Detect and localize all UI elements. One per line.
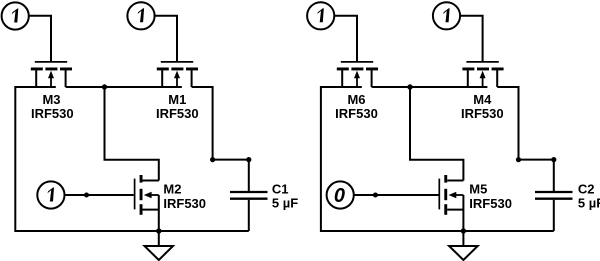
transistor M1 [157,62,198,87]
wire left rail right circuit [320,86,322,232]
junction dot ground left [156,228,161,233]
wire node A down to M2 drain [105,87,159,181]
label M4 IRF530 [461,92,504,121]
wire top rail right circuit seg1 [321,86,362,88]
wire bottom rail left circuit [15,230,249,232]
wire top rail right segment [192,86,213,88]
wire M1 drain drop [212,86,214,160]
wire top rail middle segment [66,86,182,88]
svg-text:C1: C1 [272,182,289,197]
node dot C1 top [246,157,251,162]
svg-text:M5: M5 [469,182,487,197]
source V5 "0" circle (M5 gate) [327,181,354,208]
label M2 IRF530 [163,182,206,211]
wire V5 to M5 gate [354,194,439,196]
capacitor C1 [230,160,268,231]
node A junction dot [102,84,107,89]
source V3 "1" top-left circle [2,2,29,29]
svg-text:0: 0 [334,185,345,207]
transistor M5 [439,175,463,231]
source V1 "1" circle (M1 gate) [127,2,154,29]
transistor M2 [135,175,159,231]
transistor M6 [337,62,378,87]
junction dot gate wire right [373,193,378,198]
ground right [449,231,478,260]
wire M4 drain drop [518,86,520,160]
svg-text:IRF530: IRF530 [469,196,512,211]
wire bottom rail right circuit [321,230,554,232]
wire top rail right circuit seg2 [372,86,488,88]
junction dot gate wire [84,193,89,198]
wire node B down to M5 drain [410,87,463,181]
svg-text:IRF530: IRF530 [335,106,378,121]
wire to C2 [519,159,554,161]
svg-text:IRF530: IRF530 [156,106,199,121]
label M5 IRF530 [469,182,512,211]
svg-text:M2: M2 [163,182,181,197]
wire V1 to M1 gate [155,16,177,62]
capacitor C2 [535,160,573,231]
node B junction dot [407,84,412,89]
svg-text:IRF530: IRF530 [461,106,504,121]
svg-text:5 µF: 5 µF [578,195,600,210]
node dot output right [516,157,521,162]
label M6 IRF530 [335,92,378,121]
wire V4 to M4 gate [460,16,483,62]
wire V6 to M6 gate [334,16,357,62]
source V2 "1" circle (M2 gate) [37,181,64,208]
node dot output left [210,157,215,162]
ground left [145,231,174,260]
wire left rail [14,86,16,232]
label C1 5uF [272,182,298,211]
label M1 IRF530 [156,92,199,121]
source V4 "1" top circle (M4 gate) [433,2,460,29]
transistor M4 [462,62,503,87]
wire top rail left segment [15,86,56,88]
wire top rail right circuit seg3 [497,86,518,88]
label M3 IRF530 [31,92,74,121]
source V6 "1" top circle (M6 gate) [307,2,334,29]
wire V2 to M2 gate [65,194,134,196]
label C2 5uF [578,182,600,211]
svg-text:5 µF: 5 µF [272,195,298,210]
wire V3 to M3 gate [29,16,51,62]
transistor M3 [31,62,72,87]
svg-text:IRF530: IRF530 [31,106,74,121]
svg-text:IRF530: IRF530 [163,196,206,211]
node dot C2 top [551,157,556,162]
svg-text:C2: C2 [578,182,595,197]
wire to C1 [213,159,249,161]
junction dot ground right [461,228,466,233]
